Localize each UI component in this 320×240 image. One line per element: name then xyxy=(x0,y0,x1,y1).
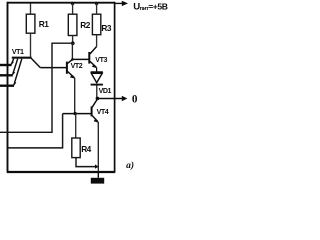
input stub 3 xyxy=(0,84,14,86)
wire R1 top xyxy=(30,4,32,15)
svg-text:VT2: VT2 xyxy=(71,62,83,70)
VT2 emitter diagonal xyxy=(68,71,75,77)
VT1 base bar xyxy=(12,57,32,59)
wire VT2 collector riser xyxy=(71,43,73,59)
VT3 collector diagonal xyxy=(90,47,97,54)
ground xyxy=(91,178,104,184)
svg-text:R1: R1 xyxy=(39,19,49,29)
VT2 collector diagonal xyxy=(68,60,73,64)
VT4 emitter diagonal xyxy=(92,116,98,122)
wire R1 bottom to VT1 base xyxy=(30,33,32,57)
VT3 base bar xyxy=(88,52,90,64)
frame left border xyxy=(7,2,9,172)
node output xyxy=(96,97,100,101)
svg-text:R4: R4 xyxy=(81,144,91,154)
node VT2 collector xyxy=(71,58,74,61)
input stub 1 xyxy=(0,64,12,66)
wire VT2 collector to VT3 base xyxy=(72,58,88,60)
frame right border xyxy=(114,2,116,172)
ground stub xyxy=(97,172,99,178)
frame bottom / ground rail xyxy=(7,171,116,173)
svg-text:0: 0 xyxy=(132,94,138,106)
resistor R2 xyxy=(68,14,77,35)
supply arrow xyxy=(115,2,123,4)
wire R4 top xyxy=(75,114,77,138)
wire VT3 emitter to VD1 xyxy=(96,67,98,72)
VT4 collector diagonal xyxy=(92,99,97,107)
svg-text:R2: R2 xyxy=(80,20,90,30)
diode VD1 xyxy=(91,71,103,73)
VT1 emitter 3 xyxy=(14,59,22,85)
wire output xyxy=(97,98,122,100)
wire Э branch (VT4 base to left border) xyxy=(8,114,63,148)
svg-text:VT3: VT3 xyxy=(95,56,107,64)
wire VT4 base line xyxy=(63,113,91,115)
resistor R4 xyxy=(72,138,80,158)
resistor R3 xyxy=(92,14,100,35)
wire R3 top xyxy=(96,4,98,15)
VT1 collector diagonal xyxy=(31,58,40,67)
node R2 bottom xyxy=(71,41,75,45)
node R2 top xyxy=(71,2,74,5)
VT2 base bar xyxy=(66,62,68,74)
wire R3 bottom to VT3 collector xyxy=(96,35,98,47)
wire R2 top xyxy=(72,4,74,15)
svg-text:а): а) xyxy=(126,160,134,171)
VT1 emitter 2 xyxy=(13,59,18,75)
svg-text:R3: R3 xyxy=(101,23,111,33)
svg-text:VT4: VT4 xyxy=(97,108,109,116)
frame top / +5V rail xyxy=(8,2,115,4)
wire VT2 emitter riser xyxy=(74,78,76,114)
wire VD1 cathode to output xyxy=(96,86,98,99)
resistor R1 xyxy=(26,14,35,33)
svg-text:VD1: VD1 xyxy=(99,87,112,95)
wire VT4 emitter riser xyxy=(97,122,99,171)
wire R4 bottom xyxy=(76,158,96,167)
svg-text:VT1: VT1 xyxy=(12,48,24,56)
VT1 emitter 1 xyxy=(11,59,14,65)
node VT2 emitter / R4 / VT4 base xyxy=(73,112,76,115)
VT3 emitter diagonal xyxy=(90,61,96,67)
input stub 2 xyxy=(0,74,13,76)
wire VT1 collector to VT2 base xyxy=(40,67,66,69)
wire R2 bottom xyxy=(72,36,74,44)
node R3 top xyxy=(95,2,98,5)
VT4 base bar xyxy=(91,106,93,116)
wire K branch (R2 bottom to left edge) xyxy=(0,43,73,132)
svg-text:Uпит=+5В: Uпит=+5В xyxy=(133,1,168,12)
